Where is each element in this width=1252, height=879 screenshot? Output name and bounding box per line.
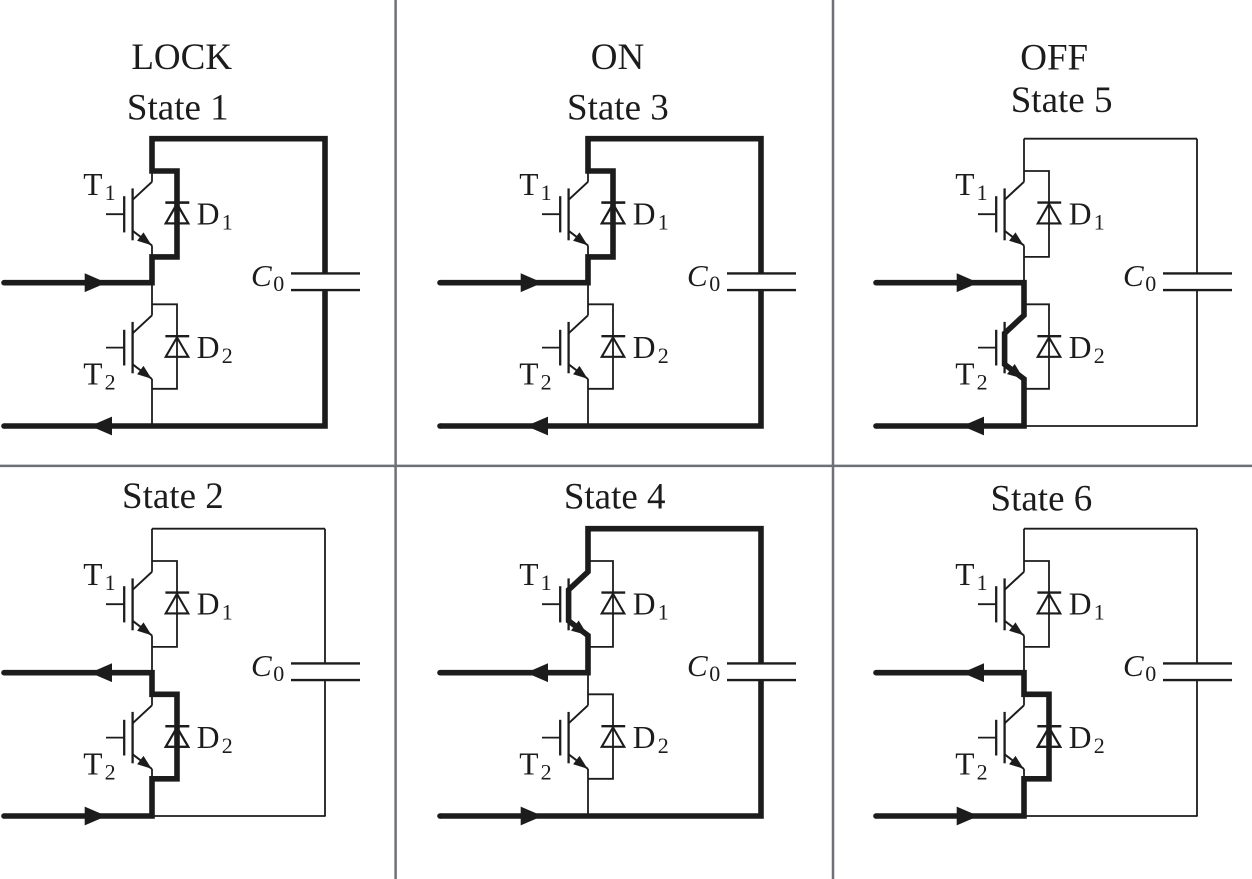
svg-text:D: D bbox=[197, 720, 220, 755]
svg-text:1: 1 bbox=[658, 209, 669, 234]
svg-text:T: T bbox=[83, 356, 102, 391]
svg-text:State 3: State 3 bbox=[567, 88, 669, 129]
svg-text:0: 0 bbox=[1145, 271, 1156, 296]
svg-text:1: 1 bbox=[222, 599, 233, 624]
svg-text:2: 2 bbox=[977, 760, 988, 785]
svg-text:C: C bbox=[1123, 258, 1144, 293]
svg-text:2: 2 bbox=[541, 760, 552, 785]
svg-text:D: D bbox=[1069, 720, 1092, 755]
svg-text:1: 1 bbox=[222, 209, 233, 234]
svg-text:1: 1 bbox=[1094, 209, 1105, 234]
svg-text:T: T bbox=[83, 746, 102, 781]
svg-text:D: D bbox=[1069, 586, 1092, 621]
svg-text:2: 2 bbox=[105, 370, 116, 395]
svg-text:D: D bbox=[633, 196, 656, 231]
svg-text:2: 2 bbox=[658, 343, 669, 368]
svg-text:2: 2 bbox=[222, 733, 233, 758]
svg-text:State 2: State 2 bbox=[122, 476, 224, 517]
svg-text:0: 0 bbox=[709, 661, 720, 686]
svg-text:T: T bbox=[955, 167, 974, 202]
svg-text:State 5: State 5 bbox=[1011, 80, 1113, 121]
svg-text:0: 0 bbox=[273, 661, 284, 686]
svg-text:T: T bbox=[519, 167, 538, 202]
svg-text:2: 2 bbox=[977, 370, 988, 395]
svg-text:State 4: State 4 bbox=[564, 476, 666, 517]
svg-text:D: D bbox=[197, 330, 220, 365]
svg-text:0: 0 bbox=[1145, 661, 1156, 686]
svg-text:T: T bbox=[519, 746, 538, 781]
svg-text:0: 0 bbox=[709, 271, 720, 296]
svg-text:1: 1 bbox=[658, 599, 669, 624]
svg-text:State 6: State 6 bbox=[991, 478, 1093, 519]
svg-text:0: 0 bbox=[273, 271, 284, 296]
svg-text:D: D bbox=[633, 330, 656, 365]
svg-text:2: 2 bbox=[222, 343, 233, 368]
svg-text:1: 1 bbox=[541, 570, 552, 595]
svg-text:C: C bbox=[687, 648, 708, 683]
svg-text:1: 1 bbox=[541, 180, 552, 205]
svg-text:2: 2 bbox=[658, 733, 669, 758]
svg-text:2: 2 bbox=[1094, 733, 1105, 758]
svg-text:1: 1 bbox=[105, 180, 116, 205]
svg-text:1: 1 bbox=[105, 570, 116, 595]
svg-text:ON: ON bbox=[591, 37, 644, 78]
svg-text:T: T bbox=[955, 557, 974, 592]
svg-text:T: T bbox=[955, 746, 974, 781]
svg-text:State 1: State 1 bbox=[127, 88, 229, 129]
svg-text:OFF: OFF bbox=[1020, 38, 1088, 79]
svg-text:T: T bbox=[519, 557, 538, 592]
svg-text:T: T bbox=[955, 356, 974, 391]
svg-text:LOCK: LOCK bbox=[131, 37, 232, 78]
svg-text:C: C bbox=[251, 258, 272, 293]
svg-text:1: 1 bbox=[977, 180, 988, 205]
svg-text:C: C bbox=[1123, 648, 1144, 683]
svg-text:2: 2 bbox=[541, 370, 552, 395]
svg-text:C: C bbox=[687, 258, 708, 293]
svg-text:2: 2 bbox=[1094, 343, 1105, 368]
svg-text:T: T bbox=[83, 557, 102, 592]
svg-text:D: D bbox=[1069, 196, 1092, 231]
svg-text:T: T bbox=[83, 167, 102, 202]
svg-text:C: C bbox=[251, 648, 272, 683]
svg-text:D: D bbox=[633, 720, 656, 755]
svg-text:2: 2 bbox=[105, 760, 116, 785]
svg-text:1: 1 bbox=[1094, 599, 1105, 624]
svg-text:1: 1 bbox=[977, 570, 988, 595]
svg-text:D: D bbox=[197, 196, 220, 231]
svg-text:D: D bbox=[633, 586, 656, 621]
svg-text:T: T bbox=[519, 356, 538, 391]
svg-text:D: D bbox=[1069, 330, 1092, 365]
svg-text:D: D bbox=[197, 586, 220, 621]
